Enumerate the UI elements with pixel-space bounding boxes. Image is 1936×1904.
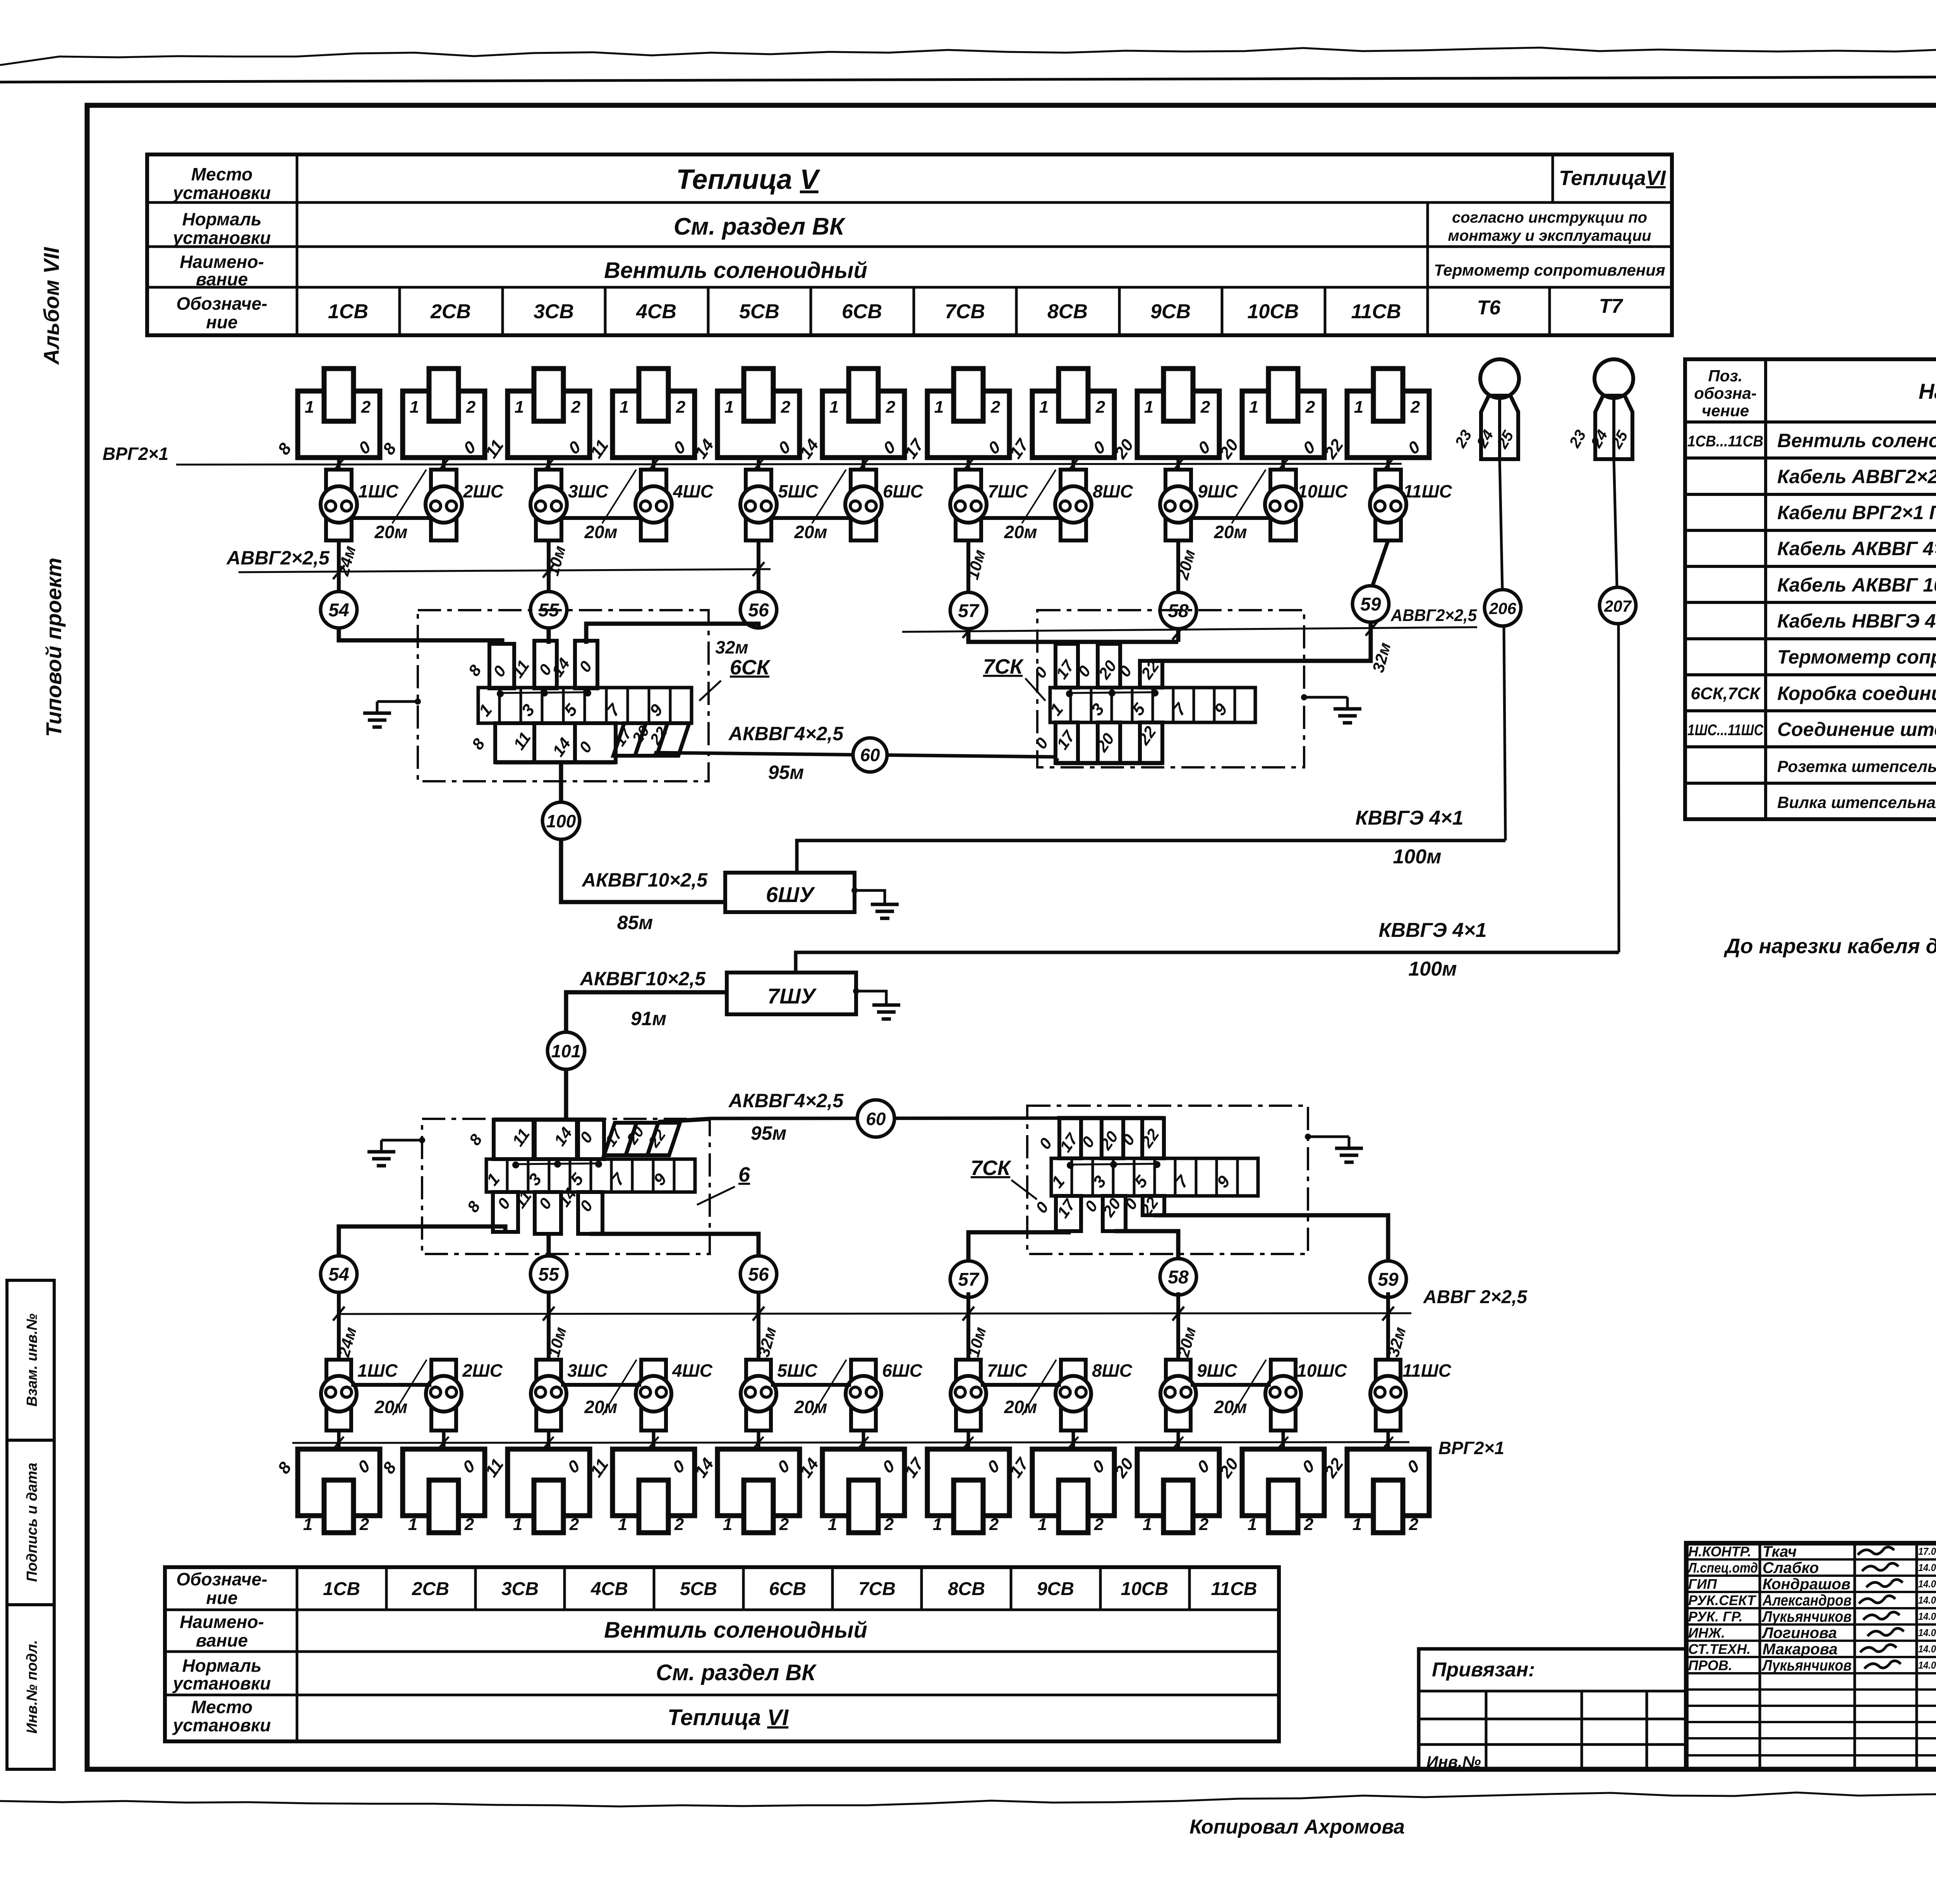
- svg-text:2: 2: [361, 398, 371, 417]
- junction box 6СК boundary (top): [418, 610, 709, 781]
- svg-text:17.01.86: 17.01.86: [1918, 1545, 1936, 1557]
- cable АКВВГ10х2,5 85м node 100 to 6ШУ: [561, 839, 725, 902]
- svg-text:7СВ: 7СВ: [858, 1579, 896, 1599]
- plug connector 4ШС (top): [641, 470, 666, 540]
- svg-text:7ШС: 7ШС: [987, 1360, 1028, 1381]
- wire node 56 to box 6СК: [586, 624, 759, 644]
- svg-text:1: 1: [618, 1515, 627, 1534]
- plug connector 1ШС (bottom): [326, 1360, 351, 1431]
- plug connector 3ШС (bottom): [536, 1360, 561, 1431]
- wire 6СК to node 100: [559, 762, 563, 802]
- svg-text:Вентиль соленоидный: Вентиль соленоидный: [604, 1618, 867, 1643]
- svg-text:ТеплицаVI: ТеплицаVI: [1559, 166, 1666, 190]
- svg-text:2: 2: [569, 1515, 579, 1534]
- svg-text:Место: Место: [191, 1697, 252, 1717]
- svg-text:2: 2: [779, 1515, 789, 1534]
- svg-text:установки: установки: [172, 183, 271, 203]
- resistance thermometer Т6: [1480, 359, 1519, 398]
- svg-text:Кабель АВВГ2×2,5 ГОСТ 16442-8: Кабель АВВГ2×2,5 ГОСТ 16442-80: [1777, 466, 1936, 487]
- svg-text:Н.КОНТР.: Н.КОНТР.: [1688, 1544, 1751, 1559]
- parts table frame: [1685, 359, 1936, 819]
- plug connector 10ШС (top): [1270, 470, 1296, 540]
- svg-text:10СВ: 10СВ: [1121, 1579, 1169, 1599]
- wire node 206 down: [1504, 626, 1505, 841]
- node 101: [548, 1032, 585, 1069]
- 6СК jumper link: [499, 692, 589, 693]
- wire node 55 to box 6СК: [547, 628, 551, 644]
- svg-text:Наименование: Наименование: [1919, 379, 1936, 403]
- svg-text:2: 2: [886, 398, 896, 417]
- svg-text:2: 2: [1200, 398, 1210, 417]
- svg-text:1: 1: [513, 1515, 522, 1534]
- svg-text:206: 206: [1489, 599, 1517, 618]
- box 6 terminal strip (bottom): [486, 1159, 695, 1192]
- cable АВВГ2х2,5 run (bottom): [337, 1313, 1411, 1314]
- svg-text:2: 2: [464, 1515, 474, 1534]
- solenoid valve 7СВ (bottom): [927, 1449, 1009, 1516]
- svg-text:2: 2: [674, 1515, 684, 1534]
- plug connector 4ШС (bottom): [641, 1360, 666, 1431]
- svg-text:59: 59: [1378, 1269, 1399, 1290]
- solenoid valve 9СВ (bottom): [1137, 1449, 1219, 1516]
- bottom table frame: [165, 1567, 1279, 1741]
- svg-text:10ШС: 10ШС: [1297, 1360, 1347, 1381]
- svg-text:60: 60: [866, 1109, 886, 1129]
- box 6 exit top bus: [494, 1118, 604, 1122]
- svg-text:Обозначе-: Обозначе-: [176, 1569, 267, 1589]
- svg-text:4ШС: 4ШС: [673, 481, 714, 501]
- svg-text:5ШС: 5ШС: [778, 481, 819, 501]
- svg-text:2: 2: [1410, 398, 1420, 417]
- 7СК cable exits: [1056, 722, 1078, 763]
- bottom table row lines: [165, 1609, 1279, 1611]
- svg-text:Термометр сопротивления: Термометр сопротивления: [1434, 261, 1665, 279]
- wire node 57 to 7СК (bottom): [968, 1231, 1069, 1261]
- leader 6 (bottom box): [697, 1187, 735, 1205]
- 6СК terminal strip: [478, 688, 692, 723]
- solenoid valve 8СВ (top): [1032, 391, 1114, 458]
- svg-text:Макарова: Макарова: [1763, 1641, 1838, 1658]
- node 60 (top): [853, 738, 887, 772]
- svg-text:5СВ: 5СВ: [680, 1579, 717, 1599]
- svg-text:вание: вание: [196, 1630, 248, 1650]
- svg-text:Теплица V: Теплица V: [676, 164, 821, 195]
- solenoid valve 6СВ (top): [822, 391, 904, 458]
- svg-text:9СВ: 9СВ: [1037, 1579, 1074, 1599]
- valve 4СВ stem wire: [652, 458, 656, 470]
- valve 1СВ stem (bottom): [337, 1431, 341, 1449]
- svg-text:11СВ: 11СВ: [1351, 300, 1401, 323]
- svg-text:Логинова: Логинова: [1761, 1624, 1837, 1642]
- node 56 (top): [740, 592, 777, 628]
- wire node 54 to box 6 (bottom): [339, 1226, 505, 1256]
- solenoid valve 4СВ (bottom): [613, 1449, 695, 1516]
- svg-text:1: 1: [724, 398, 734, 417]
- svg-text:6ШС: 6ШС: [883, 481, 923, 501]
- cable АКВВГ4х2,5 (top) with node 60: [654, 753, 1057, 757]
- svg-text:ВРГ2×1: ВРГ2×1: [103, 444, 168, 464]
- valve 9СВ stem wire: [1177, 458, 1180, 470]
- svg-text:КВВГЭ 4×1: КВВГЭ 4×1: [1378, 919, 1486, 942]
- plug connector 2ШС (bottom): [431, 1360, 456, 1431]
- svg-text:Взам. инв.№: Взам. инв.№: [24, 1314, 40, 1407]
- solenoid valve 5СВ (bottom): [717, 1449, 800, 1516]
- node 58 (top): [1160, 592, 1196, 629]
- svg-text:Нормаль: Нормаль: [182, 1655, 262, 1676]
- svg-text:Кондрашов: Кондрашов: [1763, 1576, 1850, 1593]
- node 57 (top): [950, 592, 987, 629]
- leader 7СК (bottom): [1011, 1180, 1037, 1199]
- svg-text:54: 54: [328, 1264, 349, 1285]
- plug connector 11ШС (top): [1375, 470, 1401, 540]
- 7СК jumper link (bottom): [1069, 1164, 1158, 1165]
- svg-text:20м: 20м: [794, 522, 827, 542]
- valve 3СВ stem (bottom): [547, 1431, 551, 1449]
- svg-text:ИНЖ.: ИНЖ.: [1688, 1625, 1725, 1641]
- svg-text:2: 2: [781, 398, 791, 417]
- svg-text:См. раздел ВК: См. раздел ВК: [656, 1660, 817, 1685]
- drop wire plug 1ШС to node 54: [337, 540, 341, 591]
- svg-text:АВВГ2×2,5: АВВГ2×2,5: [1390, 606, 1477, 625]
- svg-text:1: 1: [933, 1515, 942, 1534]
- svg-text:Поз.: Поз.: [1708, 367, 1743, 385]
- svg-text:1: 1: [1143, 1515, 1152, 1534]
- svg-text:Кабель АКВВГ 10×2,5 ГОСТ 1508: Кабель АКВВГ 10×2,5 ГОСТ 1508-78: [1777, 574, 1936, 596]
- svg-text:9ШС: 9ШС: [1198, 481, 1238, 501]
- box 6 cable entries (bottom): [493, 1192, 518, 1232]
- svg-text:РУК.СЕКТ: РУК.СЕКТ: [1688, 1592, 1757, 1608]
- svg-text:8СВ: 8СВ: [1047, 300, 1088, 323]
- cable АКВВГ4х2,5 (bottom) with node 60: [658, 1119, 710, 1122]
- svg-text:2СВ: 2СВ: [430, 300, 471, 323]
- valve 7СВ stem (bottom): [967, 1431, 970, 1449]
- box 6 cable exits (top, bottom schematic): [494, 1120, 534, 1159]
- parts table row 5: [1685, 565, 1936, 568]
- svg-text:3ШС: 3ШС: [567, 1360, 608, 1381]
- svg-text:АВВГ2×2,5: АВВГ2×2,5: [226, 547, 330, 569]
- svg-text:Кабель АКВВГ 4×2,5 ГОСТ 1508-: Кабель АКВВГ 4×2,5 ГОСТ 1508-78: [1777, 538, 1936, 559]
- svg-text:1: 1: [1039, 398, 1049, 417]
- svg-text:9СВ: 9СВ: [1150, 300, 1191, 323]
- svg-text:2: 2: [1094, 1515, 1104, 1534]
- node 54 (top): [321, 592, 357, 628]
- svg-text:установки: установки: [172, 228, 271, 248]
- valve 10СВ stem (bottom): [1282, 1431, 1285, 1449]
- svg-text:1: 1: [410, 398, 419, 417]
- svg-text:1СВ...11СВ: 1СВ...11СВ: [1687, 433, 1763, 450]
- cabinet 6ШУ: [725, 873, 855, 912]
- leader 6СК: [699, 681, 721, 701]
- svg-text:95м: 95м: [768, 762, 804, 783]
- ground 6ШУ: [851, 887, 858, 894]
- svg-text:56: 56: [748, 1264, 769, 1285]
- solenoid valve 2СВ (bottom): [403, 1449, 485, 1516]
- plug connector 9ШС (top): [1165, 470, 1191, 540]
- svg-text:20м: 20м: [374, 522, 407, 542]
- solenoid valve 1СВ (top): [298, 391, 380, 458]
- wire node 207 down: [1618, 624, 1619, 952]
- svg-text:Копировал Ахромова: Копировал Ахромова: [1189, 1816, 1405, 1838]
- svg-text:ние: ние: [206, 312, 237, 332]
- svg-text:14.01.86: 14.01.86: [1918, 1578, 1936, 1590]
- wire node 59 to 7СК (bottom): [1153, 1215, 1388, 1261]
- svg-text:6ШС: 6ШС: [882, 1360, 923, 1381]
- 7СК cable entries (top): [1056, 644, 1078, 688]
- cable АКВВГ10х2,5 91м node 101 to 7ШУ: [566, 992, 727, 1031]
- wire node 55 to box 6 (bottom): [547, 1234, 551, 1256]
- svg-text:4ШС: 4ШС: [672, 1360, 713, 1381]
- svg-text:обозна-: обозна-: [1694, 384, 1756, 402]
- svg-text:20м: 20м: [584, 522, 617, 542]
- wire node 54 to box 6СК: [339, 628, 502, 644]
- plug connector 6ШС (top): [851, 470, 876, 540]
- plug connector 8ШС (bottom): [1061, 1360, 1086, 1431]
- svg-text:57: 57: [958, 1269, 980, 1290]
- riser node to plug (bottom): [337, 1292, 341, 1360]
- svg-text:1: 1: [1038, 1515, 1047, 1534]
- svg-text:установки: установки: [172, 1715, 271, 1735]
- solenoid valve 3СВ (bottom): [508, 1449, 590, 1516]
- plug connector 2ШС (top): [431, 470, 457, 540]
- signature row Н.КОНТР.: [1686, 1558, 1936, 1561]
- svg-text:1: 1: [934, 398, 944, 417]
- svg-text:20м: 20м: [1004, 522, 1037, 542]
- svg-text:2: 2: [1304, 1515, 1314, 1534]
- title block frame: [1686, 1543, 1936, 1769]
- svg-text:1СВ: 1СВ: [328, 300, 368, 323]
- node 206: [1485, 590, 1521, 626]
- parts table row 4: [1685, 529, 1936, 532]
- svg-text:ГИП: ГИП: [1688, 1576, 1717, 1592]
- signature table lines: [1759, 1543, 1761, 1769]
- svg-text:Вентиль соленоидный: Вентиль соленоидный: [1777, 430, 1936, 451]
- svg-text:АКВВГ10×2,5: АКВВГ10×2,5: [579, 968, 706, 990]
- svg-text:2: 2: [676, 398, 686, 417]
- svg-text:РУК. ГР.: РУК. ГР.: [1688, 1609, 1743, 1624]
- valve 11СВ stem (bottom): [1387, 1431, 1390, 1449]
- solenoid valve 9СВ (top): [1137, 391, 1219, 458]
- ground 7СК (right, bottom): [1308, 1136, 1349, 1138]
- valve 8СВ stem wire: [1072, 458, 1075, 470]
- top table row lines: [147, 201, 1672, 204]
- junction box 6 boundary (bottom): [422, 1119, 710, 1254]
- 7СК entries (bottom): [1056, 1196, 1081, 1231]
- svg-text:чение: чение: [1702, 401, 1749, 420]
- 7СК terminal strip (bottom): [1051, 1158, 1258, 1196]
- svg-text:6СК: 6СК: [730, 656, 771, 679]
- svg-text:1: 1: [828, 1515, 837, 1534]
- Привязан block lines: [1419, 1690, 1686, 1693]
- svg-text:Т7: Т7: [1599, 295, 1624, 317]
- svg-text:1: 1: [1354, 398, 1363, 417]
- solenoid valve 1СВ (bottom): [298, 1449, 380, 1516]
- node 207: [1600, 587, 1636, 624]
- parts table row 2: [1685, 456, 1936, 460]
- valve 5СВ stem wire: [757, 458, 760, 470]
- ground 7ШУ: [853, 988, 859, 994]
- signature row РУК. ГР.: [1686, 1623, 1936, 1626]
- valve 5СВ stem (bottom): [757, 1431, 760, 1449]
- wire Т6 to node 206: [1500, 459, 1502, 589]
- svg-text:2: 2: [1095, 398, 1105, 417]
- node 59 (top): [1352, 586, 1389, 622]
- parts table row 10: [1685, 745, 1936, 748]
- svg-text:монтажу и эксплуатации: монтажу и эксплуатации: [1448, 227, 1651, 244]
- svg-text:СТ.ТЕХН.: СТ.ТЕХН.: [1688, 1641, 1751, 1657]
- solenoid valve 5СВ (top): [717, 391, 800, 458]
- svg-text:2: 2: [1305, 398, 1315, 417]
- solenoid valve 2СВ (top): [403, 391, 485, 458]
- bus ВРГ2х1 (bottom): [292, 1442, 1409, 1443]
- valve 4СВ stem (bottom): [652, 1431, 656, 1449]
- drop wire plug 7ШС to node 57: [966, 540, 970, 592]
- svg-text:6ШУ: 6ШУ: [766, 882, 815, 907]
- svg-text:7СК: 7СК: [983, 655, 1024, 678]
- parts table row 3: [1685, 493, 1936, 496]
- signature row ПРОВ.: [1686, 1672, 1936, 1674]
- svg-text:2: 2: [884, 1515, 894, 1534]
- drop wire plug 9ШС to node 58: [1176, 540, 1180, 592]
- margin stamp box Взам.инв.№: [7, 1280, 54, 1440]
- svg-text:1: 1: [303, 1515, 312, 1534]
- svg-text:7СК: 7СК: [971, 1156, 1012, 1180]
- plug connector 11ШС (bottom): [1376, 1360, 1401, 1431]
- svg-text:14.01.86: 14.01.86: [1918, 1627, 1936, 1638]
- svg-text:Термометр сопротивления гр 23Г: Термометр сопротивления гр 23ГСМ6097: [1777, 646, 1936, 668]
- cable АВВГ2х2,5 run (top right): [902, 627, 1477, 632]
- svg-text:3ШС: 3ШС: [568, 481, 609, 501]
- solenoid valve 11СВ (bottom): [1347, 1449, 1429, 1516]
- svg-text:6СК,7СК: 6СК,7СК: [1691, 684, 1761, 703]
- svg-text:11ШС: 11ШС: [1403, 481, 1452, 501]
- bottom table columns: [385, 1567, 388, 1610]
- svg-text:14.01.86: 14.01.86: [1918, 1611, 1936, 1622]
- top table column lines row4: [398, 287, 401, 335]
- Привязан block frame: [1419, 1649, 1686, 1769]
- valve 6СВ stem (bottom): [862, 1431, 865, 1449]
- svg-text:10СВ: 10СВ: [1248, 300, 1299, 323]
- bottom nodes 54-59: [321, 1256, 357, 1292]
- svg-text:1ШС: 1ШС: [357, 1360, 398, 1381]
- plug connector 8ШС (top): [1061, 470, 1086, 540]
- svg-text:Типовой проект: Типовой проект: [41, 557, 66, 737]
- svg-text:1: 1: [620, 398, 629, 417]
- svg-text:Альбом VII: Альбом VII: [39, 247, 64, 365]
- svg-text:5ШС: 5ШС: [777, 1360, 818, 1381]
- svg-text:7ШУ: 7ШУ: [767, 984, 817, 1008]
- svg-text:АКВВГ10×2,5: АКВВГ10×2,5: [581, 869, 708, 891]
- svg-text:Нормаль: Нормаль: [182, 209, 262, 229]
- parts table row 11: [1685, 782, 1936, 785]
- valve 10СВ stem wire: [1282, 458, 1285, 470]
- svg-text:6СВ: 6СВ: [842, 300, 882, 323]
- signature empty rows: [1686, 1688, 1936, 1691]
- svg-text:58: 58: [1168, 1267, 1189, 1288]
- plug connector 7ШС (bottom): [956, 1360, 981, 1431]
- svg-text:11ШС: 11ШС: [1402, 1360, 1452, 1381]
- solenoid valve 6СВ (bottom): [822, 1449, 904, 1516]
- drop wire plug 5ШС to node 56: [757, 540, 760, 591]
- plug pair wires 20м (top): [352, 516, 431, 520]
- plug connector 1ШС (top): [326, 470, 352, 540]
- wire node 101 to box 6 (bottom): [564, 1069, 568, 1120]
- 6СК cable entries (top): [489, 644, 514, 688]
- drop wire plug 11ШС to node 59: [1373, 540, 1388, 585]
- top table frame: [147, 154, 1672, 335]
- svg-text:До нарезки кабеля длины тр: До нарезки кабеля длины трасс уточнить п…: [1723, 935, 1936, 958]
- bus ВРГ2х1 (top): [176, 464, 1402, 465]
- signature row ГИП: [1686, 1591, 1936, 1593]
- svg-text:Кабель НВВГЭ 4×1 ГОСТ 1508-: Кабель НВВГЭ 4×1 ГОСТ 1508-78: [1777, 610, 1936, 632]
- svg-text:14.01.86: 14.01.86: [1918, 1594, 1936, 1606]
- riser node to plug (bottom): [1176, 1292, 1180, 1360]
- svg-text:59: 59: [1360, 594, 1381, 615]
- svg-text:1: 1: [305, 398, 314, 417]
- svg-text:вание: вание: [196, 269, 248, 289]
- valve 11СВ stem wire: [1387, 458, 1390, 470]
- 7СК terminal strip: [1050, 688, 1255, 722]
- svg-text:4СВ: 4СВ: [636, 300, 676, 323]
- svg-text:6СВ: 6СВ: [769, 1579, 806, 1599]
- margin stamp box Инв.№ подл.: [7, 1605, 54, 1769]
- svg-text:8ШС: 8ШС: [1092, 1360, 1133, 1381]
- svg-text:1ШС...11ШС: 1ШС...11ШС: [1687, 722, 1764, 739]
- svg-text:14.01.86: 14.01.86: [1918, 1643, 1936, 1655]
- valve 9СВ stem (bottom): [1177, 1431, 1180, 1449]
- cable АВВГ2х2,5 run (top left): [239, 569, 771, 572]
- svg-text:56: 56: [748, 600, 769, 621]
- svg-text:207: 207: [1604, 597, 1632, 615]
- svg-text:11СВ: 11СВ: [1211, 1579, 1257, 1599]
- top table label column line: [296, 154, 299, 335]
- svg-text:Вилка штепсельная с уплотненны: Вилка штепсельная с уплотненным вводом У…: [1777, 793, 1936, 811]
- svg-text:1ШС: 1ШС: [358, 481, 399, 501]
- box 6 jumper link (bottom): [515, 1163, 599, 1164]
- svg-text:85м: 85м: [617, 912, 653, 933]
- svg-text:8ШС: 8ШС: [1093, 481, 1133, 501]
- svg-text:Подпись и дата: Подпись и дата: [24, 1463, 40, 1582]
- plug connector 10ШС (bottom): [1271, 1360, 1296, 1431]
- svg-text:60: 60: [860, 745, 880, 765]
- solenoid valve 10СВ (top): [1242, 391, 1324, 458]
- svg-text:91м: 91м: [631, 1008, 667, 1029]
- wire Т7 to node 207: [1614, 459, 1617, 587]
- signature row Л.спец.отд: [1686, 1575, 1936, 1577]
- svg-text:2ШС: 2ШС: [463, 481, 504, 501]
- svg-text:100: 100: [546, 811, 576, 831]
- solenoid valve 11СВ (top): [1347, 391, 1429, 458]
- svg-text:Место: Место: [191, 164, 252, 184]
- svg-text:ние: ние: [206, 1588, 237, 1608]
- svg-text:Лукьянчиков: Лукьянчиков: [1761, 1657, 1852, 1674]
- wire node 56 to box 6 (bottom): [590, 1234, 759, 1256]
- solenoid valve 7СВ (top): [927, 391, 1009, 458]
- svg-text:2ШС: 2ШС: [462, 1360, 503, 1381]
- solenoid valve 8СВ (bottom): [1032, 1449, 1114, 1516]
- cable КВВГЭ 4х1 to 7ШУ: [796, 952, 1619, 973]
- 7СК top exits (bottom schematic): [1059, 1118, 1081, 1158]
- svg-text:3СВ: 3СВ: [534, 300, 574, 323]
- 7СК exit top bus (bottom schematic): [1057, 1116, 1164, 1120]
- svg-text:2: 2: [990, 398, 1001, 417]
- 6СК exit bottom bus: [495, 760, 616, 765]
- wire node 59 to box 7СК: [1151, 622, 1371, 661]
- node 55 (top): [530, 592, 567, 628]
- svg-text:95м: 95м: [751, 1122, 787, 1144]
- junction box 7СК boundary (bottom): [1027, 1106, 1308, 1254]
- svg-text:1: 1: [1248, 1515, 1257, 1534]
- svg-text:установки: установки: [172, 1673, 271, 1693]
